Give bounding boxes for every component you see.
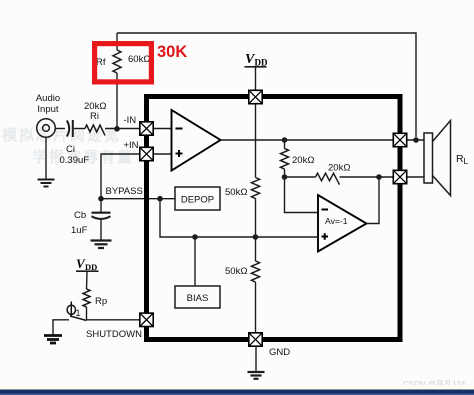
capacitor Ci: [67, 121, 69, 137]
svg-text:Ri: Ri: [90, 111, 99, 122]
op-amp U2: [318, 195, 367, 252]
label phi1: [67, 305, 75, 314]
junction node: mid-rail/BIAS: [192, 234, 198, 240]
resistor 50k lower: [252, 261, 260, 282]
wire: Rf bottom lead down to input node: [116, 73, 118, 129]
wire: Ri to -IN pin: [105, 128, 140, 130]
svg-text:Input: Input: [37, 104, 58, 115]
wire: VDD to pin: [255, 68, 257, 93]
svg-text:SHUTDOWN: SHUTDOWN: [86, 329, 142, 340]
pin VDD: [249, 90, 262, 103]
svg-text:Av=-1: Av=-1: [325, 216, 348, 226]
resistor Rf 60k zigzag: [113, 50, 121, 73]
svg-text:BYPASS: BYPASS: [106, 186, 143, 197]
wire: OUT2 to speaker: [407, 176, 424, 178]
wire: Rf top lead: [116, 33, 118, 50]
IC body (thick box): [147, 97, 401, 340]
wire: VDD to Rp: [86, 272, 89, 289]
wire: Ci to Ri: [74, 128, 85, 130]
svg-text:L: L: [464, 156, 469, 166]
pin OUT2: [393, 170, 406, 183]
junction node: input/Rf: [114, 126, 120, 132]
pin +IN: [140, 147, 153, 160]
junction node: mid-rail/50k: [253, 234, 259, 240]
svg-text:1: 1: [76, 308, 81, 318]
pin GND: [249, 333, 262, 346]
wire: op-amp U1 output to OUT1 pin: [221, 139, 395, 141]
svg-text:Rf: Rf: [96, 57, 106, 68]
wire: 20k to OUT2 pin: [340, 176, 395, 178]
junction node: output/20k: [282, 137, 288, 143]
wire: U2 output up to OUT2 line: [367, 177, 380, 224]
wire: to 20k horizontal: [285, 176, 316, 178]
svg-text:50kΩ: 50kΩ: [225, 266, 247, 277]
svg-text:30K: 30K: [157, 43, 187, 61]
svg-text:DEPOP: DEPOP: [181, 195, 214, 206]
svg-text:20kΩ: 20kΩ: [328, 163, 350, 174]
ground (audio input): [38, 180, 55, 187]
resistor Ri zigzag: [85, 125, 105, 136]
block DEPOP: [175, 187, 220, 210]
block BIAS: [175, 286, 220, 308]
junction node: 20k/20k: [282, 174, 288, 180]
wire: bypass node to DEPOP junction: [101, 198, 175, 200]
wire: shutdown rail to pin: [87, 319, 141, 321]
svg-text:-IN: -IN: [124, 115, 137, 126]
blue bar bottom: [0, 385, 474, 390]
switch phi1 lever: [70, 316, 87, 321]
ground (Cb): [91, 241, 112, 249]
resistor 20k horizontal: [316, 173, 340, 184]
wire: Rp to shutdown rail: [86, 307, 88, 320]
pin OUT1: [393, 133, 406, 146]
wire: top feedback from Rf to right side: [117, 33, 416, 137]
svg-text:BIAS: BIAS: [187, 293, 209, 304]
junction node: bypass: [98, 196, 104, 202]
ground (shutdown): [44, 336, 62, 344]
pin -IN: [140, 122, 153, 135]
svg-text:Ci: Ci: [66, 144, 75, 155]
resistor 20k vertical: [281, 149, 289, 170]
wire: +IN pin to op-amp: [153, 153, 172, 155]
speaker RL: [424, 133, 433, 183]
resistor Rp zigzag: [83, 289, 90, 307]
wire: BIAS to mid-rail: [194, 237, 196, 286]
highlight box (red) around Rf: [95, 44, 152, 82]
wire: mid-rail from DEPOP junction to U2 + input: [160, 199, 318, 237]
junction node: feedback/OUT1: [413, 137, 419, 143]
wire: +IN external loop to bypass node: [101, 154, 140, 199]
svg-text:+IN: +IN: [124, 140, 139, 151]
wire: internal VDD rail down to GND pin: [255, 100, 257, 178]
svg-text:Audio: Audio: [36, 93, 60, 104]
svg-text:Cb: Cb: [74, 210, 86, 221]
wire: inverting input of U2: [285, 177, 319, 213]
wire: switch to ground: [53, 320, 69, 335]
svg-text:GND: GND: [269, 347, 290, 358]
junction node: op-amp2 output: [376, 174, 382, 180]
resistor 50k upper: [252, 178, 260, 199]
ground (GND pin): [248, 372, 265, 379]
svg-text:Rp: Rp: [95, 296, 107, 307]
svg-text:0.39uF: 0.39uF: [60, 155, 90, 166]
wire: OUT1 to speaker: [407, 139, 424, 141]
wire: jack to Ci: [55, 128, 65, 130]
svg-text:20kΩ: 20kΩ: [292, 155, 314, 166]
wire: jack down to ground: [45, 137, 47, 179]
pin SHUTDOWN: [140, 313, 153, 326]
op-amp U1: [172, 110, 221, 171]
junction node: DEPOP: [157, 196, 163, 202]
wire: GND pin to ground: [255, 347, 257, 372]
capacitor Cb: [100, 202, 102, 213]
wire: -IN pin to op-amp: [153, 128, 172, 130]
svg-text:50kΩ: 50kΩ: [225, 187, 247, 198]
connector: audio input jack: [37, 119, 56, 138]
svg-text:1uF: 1uF: [71, 225, 88, 236]
svg-text:60kΩ: 60kΩ: [128, 54, 150, 65]
